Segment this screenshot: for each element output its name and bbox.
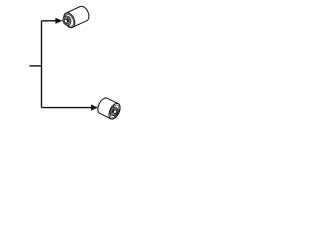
sleeve ring (110, 107, 117, 115)
body silhouette (62, 5, 91, 30)
arrowhead bottom (91, 105, 98, 111)
wire: center tick (30, 65, 42, 67)
wire: top branch (42, 20, 57, 22)
sleeve (109, 106, 119, 117)
front rim (62, 11, 77, 29)
rim inner edge (108, 104, 120, 119)
sleeve (61, 15, 72, 27)
bore (113, 109, 117, 114)
bore shading (112, 109, 114, 113)
bushing part bottom (96, 96, 123, 121)
wire: bottom branch (42, 107, 92, 109)
wire: vertical leader line (41, 21, 43, 108)
bore shading (67, 18, 70, 22)
sleeve ring (63, 16, 71, 24)
bore (64, 19, 69, 24)
bushing part top (60, 5, 91, 30)
arrowhead top (55, 18, 62, 24)
front rim (107, 102, 123, 121)
body silhouette (96, 96, 123, 121)
rim inner edge (63, 13, 75, 28)
